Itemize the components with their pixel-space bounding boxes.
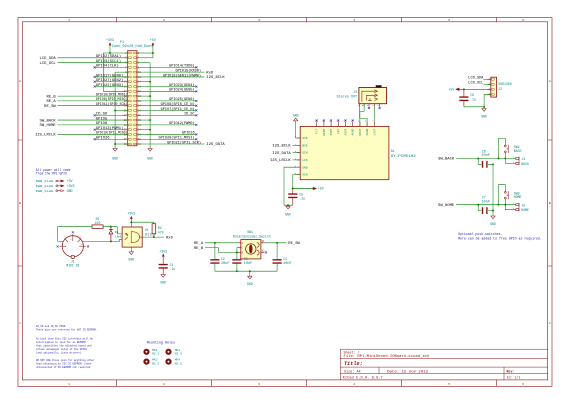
wire GPIO2 (58, 57, 128, 59)
svg-text:RxD: RxD (206, 71, 213, 75)
svg-text:C: C (19, 321, 21, 325)
svg-text:These pins are reserved for HA: These pins are reserved for HAT ID EEPRO… (36, 328, 97, 332)
junction pin2 (152, 52, 154, 54)
svg-text:GND: GND (112, 157, 118, 161)
wire GPIO6 (58, 124, 128, 126)
svg-text:1: 1 (68, 18, 70, 22)
wire SW_BACK main (456, 157, 516, 159)
svg-text:220: 220 (95, 221, 101, 225)
svg-text:.1u: .1u (299, 197, 305, 201)
junction SW3 loop (497, 204, 499, 206)
wire C8 stem (463, 89, 465, 96)
svg-text:At boot time this I2C interfac: At boot time this I2C interface will be (36, 337, 93, 341)
wire pin30 GND (137, 119, 150, 121)
svg-text:SSD1306: SSD1306 (498, 82, 511, 86)
power symbol +5V j2 (456, 88, 460, 91)
power symbol +5V flag row (58, 180, 61, 182)
optocoupler U1 H11L1 body (122, 227, 142, 247)
svg-text:ID_SC: ID_SC (184, 113, 195, 117)
svg-text:ROUT: ROUT (359, 128, 362, 135)
svg-text:MK2: MK2 (152, 359, 158, 362)
svg-text:6: 6 (522, 18, 524, 22)
wire C5 stem (292, 189, 294, 194)
svg-text:+3V3: +3V3 (159, 249, 167, 253)
svg-text:M2.5: M2.5 (175, 353, 182, 356)
no-connect GPIO24(GEN5) (195, 90, 197, 92)
switch SW3 HOME (504, 190, 508, 201)
svg-text:4: 4 (353, 18, 355, 22)
svg-text:GPIO9(SPI0_MISO): GPIO9(SPI0_MISO) (96, 97, 128, 102)
svg-text:GPIO3(SCL1): GPIO3(SCL1) (96, 59, 121, 64)
wire GPIO27(GEN2) (95, 81, 128, 83)
capacitor C5 (288, 194, 297, 197)
junction SW2 bottom (504, 157, 506, 159)
svg-text:C: C (549, 321, 551, 325)
wire right GND rail (149, 63, 151, 149)
svg-text:4: 4 (353, 382, 355, 386)
junction c8 (463, 88, 465, 90)
wire SW_HOME main (456, 204, 516, 206)
wire GPIO3 (58, 62, 128, 64)
svg-text:RE_SW: RE_SW (44, 105, 56, 109)
svg-text:10nF: 10nF (244, 261, 253, 265)
svg-text:LCD_SCL: LCD_SCL (40, 62, 56, 66)
svg-text:AGND: AGND (366, 128, 369, 135)
svg-text:D1: D1 (115, 231, 119, 234)
wire opto gnd (130, 247, 132, 252)
wire I2S_DATA dac (293, 152, 301, 154)
J4 pin numbers (513, 156, 515, 164)
svg-text:ID_SD: ID_SD (96, 113, 108, 117)
wire pin14 GND (137, 81, 150, 83)
note ID EEPROM text block (36, 324, 97, 369)
wire C3 bottom (236, 264, 238, 272)
wire GPIO21 (137, 143, 205, 145)
no-connect GPIO25(GEN6) (195, 100, 197, 102)
no-connect GPIO13 (94, 129, 96, 131)
ground symbol right (148, 149, 152, 152)
junction j2 gnd (483, 106, 485, 108)
svg-text:GPIO20(SPI1_MOSI): GPIO20(SPI1_MOSI) (159, 136, 195, 141)
svg-text:More can be added to free GPIO: More can be added to free GPIO as requir… (458, 236, 542, 240)
wire C4 bottom (276, 264, 278, 272)
wire RE_A (205, 242, 237, 244)
svg-text:LCD_SCL: LCD_SCL (468, 81, 483, 85)
svg-text:I2S_LRCLK: I2S_LRCLK (270, 159, 292, 163)
svg-text:I2S_LRCLK: I2S_LRCLK (35, 134, 57, 138)
svg-text:I2S_BCLK: I2S_BCLK (272, 145, 291, 149)
svg-text:Title:: Title: (344, 361, 363, 367)
svg-text:XSMT: XSMT (330, 128, 333, 135)
svg-text:GY-PCM5102: GY-PCM5102 (391, 154, 416, 158)
wire left GND rail (114, 72, 116, 148)
J3 pin stubs (360, 104, 380, 107)
no-connect J3 pin3 (368, 107, 370, 109)
wire ID_SC (137, 114, 196, 116)
svg-text:allows automagic setup of the: allows automagic setup of the GPIOs (36, 347, 87, 351)
wire pin39 GND (115, 143, 128, 145)
wire GPIO8(SPI0_CE_N) (137, 105, 196, 107)
svg-text:.1u: .1u (170, 267, 176, 271)
junction rail C3 (236, 270, 238, 272)
svg-text:10nF: 10nF (481, 153, 490, 157)
svg-text:RE_A: RE_A (194, 242, 204, 246)
junction C2 top (214, 242, 216, 244)
connector J4 pins (516, 157, 519, 166)
svg-text:SW1: SW1 (247, 230, 253, 234)
wire C6 branch (478, 158, 493, 164)
svg-text:SW_HOME: SW_HOME (40, 124, 56, 128)
wire S1 RE_SW (264, 242, 286, 244)
resistor R2 (152, 224, 156, 234)
no-connect GPIO8(SPI0_CE_N) (195, 105, 197, 107)
svg-text:R2: R2 (158, 226, 162, 230)
connector J5 pins (516, 203, 519, 212)
svg-text:10nF: 10nF (481, 199, 490, 203)
svg-text:GPIO18(GEN1)(PWM0): GPIO18(GEN1)(PWM0) (163, 73, 201, 78)
switch SW2 BACK (504, 143, 508, 154)
wire C2 bottom (214, 264, 216, 272)
wire GPIO25(GEN6) (137, 100, 196, 102)
svg-text:RE_A: RE_A (46, 100, 56, 104)
svg-text:HOME: HOME (514, 195, 522, 199)
svg-text:+5V: +5V (150, 38, 156, 42)
power symbol GND flag row (58, 190, 61, 192)
wire GPIO11(SPI0_SCK) (58, 105, 128, 107)
no-connect SW1 S2 (265, 251, 267, 253)
svg-text:2: 2 (163, 18, 165, 22)
svg-text:SW_BACK: SW_BACK (438, 158, 455, 162)
svg-text:GPIO15(RXD0): GPIO15(RXD0) (176, 68, 201, 73)
capacitor C1 plates (159, 265, 168, 268)
svg-text:GPIO16: GPIO16 (182, 132, 195, 136)
wire C1 to gnd (162, 269, 164, 275)
ground symbol above A1 (294, 118, 298, 121)
svg-text:MK1: MK1 (152, 349, 158, 352)
no-connect GPIO26 (94, 138, 96, 140)
no-connect J1 pin2 (72, 231, 74, 233)
junction C7 left (477, 204, 479, 206)
A1 left pin names (302, 137, 308, 177)
svg-text:PWR_FLAG: PWR_FLAG (36, 180, 54, 183)
mounting hole MK2 (143, 359, 149, 365)
svg-text:GPIO17(GEN0): GPIO17(GEN0) (96, 73, 124, 78)
svg-text:Rev:: Rev: (507, 370, 515, 374)
svg-text:SCK: SCK (302, 137, 308, 140)
wire pin20 GND (137, 95, 150, 97)
ground symbol C1 (161, 275, 165, 278)
SW1 pin letters (242, 240, 265, 254)
SW1 pin stubs (237, 243, 264, 253)
junction D1 bottom (110, 240, 112, 242)
svg-text:I2S_DATA: I2S_DATA (272, 152, 291, 156)
svg-text:GPIO13(PWM1): GPIO13(PWM1) (96, 126, 124, 131)
svg-text:A: A (19, 79, 21, 83)
wire pin34 GND (137, 129, 150, 131)
no-connect GPIO4 (94, 66, 96, 68)
wire switches gnd rail (492, 164, 494, 210)
connector J2 SSD1306 body (491, 77, 497, 97)
svg-text:FMT: FMT (337, 128, 340, 133)
svg-text:GPIO7(SPI1_CE_N): GPIO7(SPI1_CE_N) (161, 107, 195, 112)
power symbol +3V3 flag row (58, 185, 61, 187)
svg-text:GPIO23(GEN4): GPIO23(GEN4) (169, 83, 194, 88)
svg-text:GND: GND (160, 280, 166, 284)
wire SW3 loop (498, 185, 505, 205)
svg-text:BACK: BACK (514, 149, 522, 153)
svg-text:HOME: HOME (521, 208, 529, 212)
wire GPIO9(SPI0_MISO) (58, 100, 128, 102)
A1 left pin stubs (297, 138, 301, 175)
wire jack AGND (360, 104, 368, 127)
J2 pin numbers (489, 78, 491, 96)
junction D1 top (110, 226, 112, 228)
wire MIDI pin5 to opto (82, 239, 122, 241)
svg-text:than attaching an I2C ID EEPRO: than attaching an I2C ID EEPROM. Leave (36, 362, 92, 366)
svg-text:B: B (549, 201, 551, 205)
junction rail pin14 (149, 81, 151, 83)
A1 top pin stubs (317, 122, 375, 127)
svg-text:GPIO2(SDA1): GPIO2(SDA1) (96, 54, 121, 59)
wire +3V3 branch to R2 (131, 222, 154, 224)
capacitor C3 (232, 260, 241, 263)
mounting hole MK4 (165, 359, 171, 365)
wire lcd_scl j2 (484, 83, 491, 85)
J3 jack plug (376, 85, 382, 87)
svg-text:RE_SW: RE_SW (288, 242, 300, 246)
svg-text:5: 5 (448, 382, 450, 386)
svg-text:GPIO24(GEN5): GPIO24(GEN5) (169, 88, 194, 93)
junction C4 top (276, 242, 278, 244)
P1 pin numbers (124, 52, 142, 146)
wire ID_SD (95, 114, 128, 116)
svg-text:+5V: +5V (318, 187, 324, 191)
wire +5V stem (152, 46, 154, 58)
svg-text:Sheet: /: Sheet: / (344, 350, 360, 354)
svg-text:GND: GND (285, 213, 291, 217)
wire jack ROUT (360, 104, 364, 127)
svg-text:5: 5 (448, 18, 450, 22)
svg-text:J5: J5 (521, 203, 525, 207)
capacitor C2 (210, 260, 219, 263)
svg-text:BACK: BACK (521, 162, 529, 166)
wire GPIO5 (58, 119, 128, 121)
capacitor C8 (459, 97, 468, 100)
svg-text:unconnected if ID EEPROM not r: unconnected if ID EEPROM not required. (36, 365, 92, 369)
svg-text:+3V3: +3V3 (106, 38, 114, 42)
no-connect A1 A3V3 (345, 120, 347, 122)
no-connect GPIO17(GEN0) (94, 76, 96, 78)
svg-text:DIN: DIN (302, 152, 308, 155)
wire j2 gnd (464, 94, 491, 107)
svg-text:GPIO8(SPI0_CE_N): GPIO8(SPI0_CE_N) (161, 102, 195, 107)
wire C7 branch (478, 205, 493, 211)
svg-text:GPIO4(CLK): GPIO4(CLK) (96, 64, 119, 69)
junction vin c5 (292, 188, 294, 190)
svg-text:LCK: LCK (302, 159, 308, 162)
svg-text:KiCad E.D.A. 8.0.7: KiCad E.D.A. 8.0.7 (343, 375, 383, 379)
junction C6 gnd rail (492, 163, 494, 165)
svg-text:from the RPi GPIO: from the RPi GPIO (36, 172, 67, 176)
wire GPIO22(GEN3) (95, 86, 128, 88)
no-connect GPIO23(GEN4) (195, 86, 197, 88)
svg-text:M2.5: M2.5 (152, 362, 159, 365)
svg-text:I2S_BCLK: I2S_BCLK (206, 76, 225, 80)
power symbol +3V3 C1 (162, 254, 164, 257)
wire GPIO18 (137, 76, 205, 78)
power flag PWR_FLAG +5V (56, 180, 58, 182)
svg-text:GPIO21(SPI1_SCK): GPIO21(SPI1_SCK) (167, 140, 201, 145)
svg-text:PWR_FLAG: PWR_FLAG (36, 190, 54, 193)
svg-text:LCD_SDA: LCD_SDA (40, 57, 57, 61)
wire +3V3 to opto (130, 219, 132, 227)
junction gnd sym (287, 204, 289, 206)
no-connect GPIO14 (195, 66, 197, 68)
svg-text:+5V: +5V (448, 88, 454, 92)
J3 internal contacts (362, 90, 378, 102)
no-connect GPIO7(SPI1_CE_N) (195, 109, 197, 111)
junction R2 out (153, 236, 155, 238)
wire jack LOUT (374, 107, 376, 122)
svg-text:BCK: BCK (302, 144, 308, 147)
J2 pin stubs (487, 79, 491, 94)
svg-text:GPIO22(GEN3): GPIO22(GEN3) (96, 83, 124, 88)
svg-text:Date: 15 nov 2012: Date: 15 nov 2012 (387, 371, 429, 375)
wire R2 to RxD (153, 234, 155, 237)
svg-text:470: 470 (158, 231, 164, 235)
svg-text:SW_HOME: SW_HOME (438, 204, 454, 208)
wire gnd stem enc (249, 271, 251, 276)
wire SCK gnd (296, 121, 301, 138)
svg-text:+3V3: +3V3 (67, 184, 75, 188)
svg-text:6: 6 (522, 382, 524, 386)
wire GPIO10(SPI0_MOSI) (58, 95, 128, 97)
svg-text:A: A (549, 79, 551, 83)
junction pin1 (109, 52, 111, 54)
junction rail pin34 (149, 129, 151, 131)
ground symbol j2 (482, 109, 486, 112)
svg-text:Size: A4: Size: A4 (344, 370, 361, 374)
power symbol +5V (152, 43, 154, 46)
junction rail pin25 (114, 110, 116, 112)
svg-text:DEMP: DEMP (323, 128, 326, 135)
wire +3V3 to C1 (162, 257, 164, 264)
svg-text:GPIO25(GEN6): GPIO25(GEN6) (169, 97, 194, 102)
ground symbol dac (286, 206, 290, 209)
wire pin2 +5V (137, 52, 153, 54)
svg-text:(and optionally, Linux drivers: (and optionally, Linux drivers). (36, 351, 83, 355)
no-connect GPIO12(PWM0) (195, 124, 197, 126)
wire +5V j2 (459, 88, 491, 90)
wire R1 to D1 to opto (103, 227, 122, 234)
no-connect J1 pin1 (57, 245, 59, 247)
wire +3V3 stem (109, 46, 111, 53)
svg-text:A1: A1 (391, 149, 395, 153)
connector P1 Conn_02x20_Odd_Even body (128, 51, 137, 146)
wire MIDI pin4 to R1 (58, 227, 92, 242)
wire RE_B (205, 248, 237, 253)
wire GPIO17(GEN0) (95, 76, 128, 78)
power symbol +3V3 (109, 43, 111, 46)
svg-text:.1u: .1u (470, 98, 476, 102)
power flag PWR_FLAG +3V3 (56, 185, 58, 187)
svg-text:GND: GND (490, 222, 496, 226)
svg-text:MK4: MK4 (175, 359, 181, 362)
svg-text:Optional push-switches.: Optional push-switches. (458, 232, 502, 236)
no-connect J1 pin3 (87, 245, 89, 247)
svg-text:10nF: 10nF (221, 261, 230, 265)
wire pin6 GND (137, 62, 150, 64)
wire SW2 loop (498, 138, 505, 158)
connector J1 MIDI IN body (62, 236, 83, 257)
svg-text:GND: GND (302, 166, 308, 169)
svg-text:GND: GND (293, 114, 299, 118)
mounting hole MK3 (165, 349, 171, 355)
wire C8 bottom (463, 101, 465, 107)
diode D1 (109, 227, 113, 242)
A1 top pin names (316, 128, 377, 135)
ground symbol left (113, 149, 117, 152)
svg-text:GND: GND (481, 114, 487, 118)
svg-text:GND: GND (128, 258, 134, 262)
wire A1 gnd pin (284, 167, 300, 205)
svg-text:GND: GND (147, 157, 153, 161)
svg-text:GPIO11(SPI0_SCK): GPIO11(SPI0_SCK) (96, 102, 128, 107)
wire SW2 to pin1 (505, 154, 516, 163)
svg-text:3: 3 (258, 382, 260, 386)
junction rail gnd (249, 270, 251, 272)
junction C7 gnd rail (492, 210, 494, 212)
svg-text:LCD_SDA: LCD_SDA (468, 76, 483, 80)
svg-text:DO NOT USE these pins for anyt: DO NOT USE these pins for anything other (36, 358, 95, 362)
svg-text:GND: GND (67, 189, 73, 193)
no-connect GPIO20(SPI1_MOSI) (195, 138, 197, 140)
svg-text:PWR_FLAG: PWR_FLAG (36, 185, 54, 188)
P1 pin boxes (129, 52, 137, 145)
wire I2S_LRCLK dac (293, 159, 301, 161)
svg-text:RE_B: RE_B (46, 95, 56, 99)
wire GPIO12(PWM0) (137, 124, 196, 126)
svg-text:ID_SD and ID_SC PINS:: ID_SD and ID_SC PINS: (36, 324, 67, 328)
power symbol +3V3 opto (130, 216, 132, 219)
A1 left pin numbers (295, 136, 297, 176)
ground symbol opto (129, 252, 133, 255)
no-connect A1 AGND (352, 120, 354, 122)
svg-text:J2: J2 (498, 87, 502, 91)
svg-text:GPIO14(TXD0): GPIO14(TXD0) (169, 64, 194, 69)
wire pin1 +3V3 (103, 52, 127, 54)
wire pin9 GND (115, 71, 128, 73)
wire GPIO4 (95, 66, 128, 68)
svg-text:+5V: +5V (67, 179, 73, 183)
wire GPIO26 (95, 138, 128, 140)
svg-text:AGND: AGND (352, 128, 355, 135)
svg-text:MK3: MK3 (175, 349, 181, 352)
svg-text:RxD: RxD (166, 236, 173, 240)
svg-text:3: 3 (258, 18, 260, 22)
connector J3 Stereo OUT body (359, 88, 387, 104)
IC A1 GY-PCM5102 body (300, 126, 389, 179)
svg-text:2: 2 (163, 382, 165, 386)
svg-text:1: 1 (68, 382, 70, 386)
wire A1 vin pin (293, 175, 300, 189)
wire C2 stem (214, 243, 216, 259)
A1 top pin numbers (315, 119, 375, 122)
svg-text:GND: GND (247, 282, 253, 286)
wire GPIO23(GEN4) (137, 86, 196, 88)
wire pin4 +5V (137, 57, 153, 59)
wire GPIO13 (95, 129, 128, 131)
